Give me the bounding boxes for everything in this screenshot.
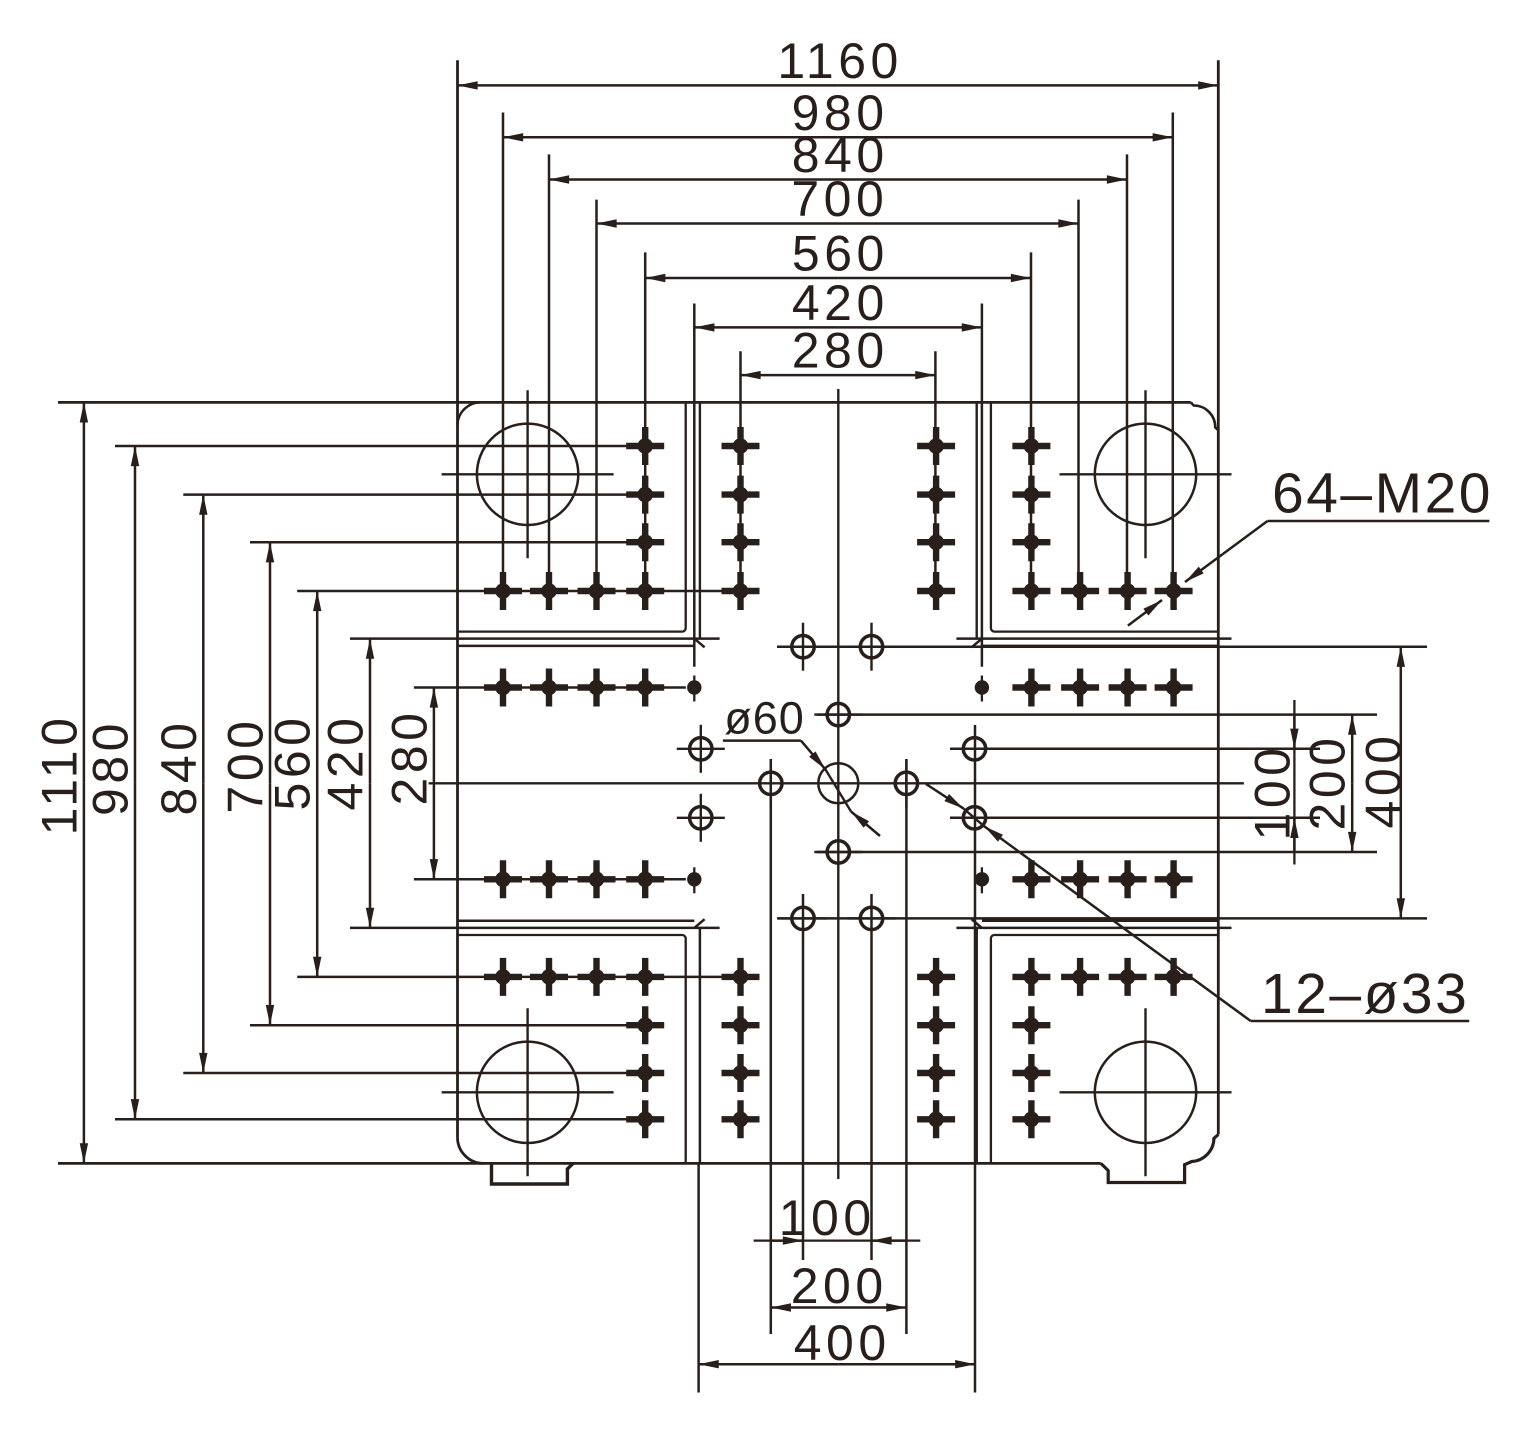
svg-text:100: 100 xyxy=(779,1190,876,1246)
svg-text:840: 840 xyxy=(151,719,207,816)
svg-text:12–ø33: 12–ø33 xyxy=(1261,962,1469,1026)
svg-text:420: 420 xyxy=(318,714,374,811)
svg-text:1160: 1160 xyxy=(777,33,903,89)
svg-text:200: 200 xyxy=(1300,734,1356,831)
svg-text:1110: 1110 xyxy=(31,714,87,836)
svg-text:560: 560 xyxy=(792,226,889,282)
svg-text:400: 400 xyxy=(794,1315,891,1371)
svg-text:280: 280 xyxy=(792,323,889,379)
svg-text:980: 980 xyxy=(83,719,139,816)
svg-text:400: 400 xyxy=(1356,732,1412,829)
svg-text:64–M20: 64–M20 xyxy=(1272,462,1493,526)
svg-text:100: 100 xyxy=(1245,744,1301,841)
svg-text:200: 200 xyxy=(791,1258,888,1314)
svg-text:700: 700 xyxy=(791,171,888,227)
svg-text:280: 280 xyxy=(381,709,437,806)
svg-text:560: 560 xyxy=(265,714,321,811)
svg-text:ø60: ø60 xyxy=(724,693,805,744)
